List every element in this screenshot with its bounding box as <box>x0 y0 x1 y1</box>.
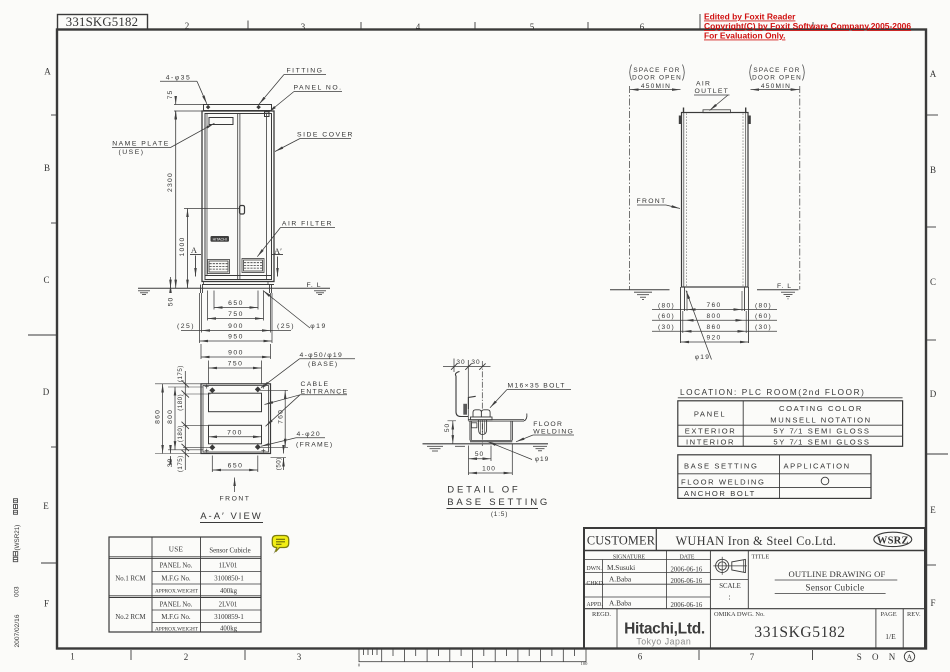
svg-text:WUHAN Iron & Steel Co.Ltd.: WUHAN Iron & Steel Co.Ltd. <box>676 534 837 548</box>
svg-text:φ19: φ19 <box>535 456 549 463</box>
svg-text:5Y 7⁄1 SEMI GLOSS: 5Y 7⁄1 SEMI GLOSS <box>773 438 870 447</box>
svg-text:APPD.: APPD. <box>587 602 604 608</box>
svg-text:A.Baba: A.Baba <box>609 575 632 584</box>
svg-text:PANEL No.: PANEL No. <box>160 563 193 570</box>
svg-text:OUTLINE DRAWING OF: OUTLINE DRAWING OF <box>789 569 886 579</box>
svg-text:FITTING: FITTING <box>287 68 324 75</box>
svg-text:Sensor Cubicle: Sensor Cubicle <box>806 583 865 593</box>
svg-text:1/E: 1/E <box>885 632 896 641</box>
svg-text:F. L: F. L <box>777 283 792 290</box>
svg-text:(FRAME): (FRAME) <box>296 441 333 448</box>
svg-text:For Evaluation Only.: For Evaluation Only. <box>704 31 785 41</box>
svg-text:E: E <box>43 501 49 511</box>
svg-text:750: 750 <box>228 361 244 368</box>
svg-text:F: F <box>44 599 49 609</box>
svg-text:Copyright(C) by Foxit Software: Copyright(C) by Foxit Software Company,2… <box>704 21 911 31</box>
svg-text:331SKG5182: 331SKG5182 <box>754 624 845 641</box>
svg-text:REV.: REV. <box>907 611 921 618</box>
svg-text:(25): (25) <box>277 323 295 330</box>
svg-text:PANEL NO.: PANEL NO. <box>293 85 342 92</box>
svg-text:Hitachi,Ltd.: Hitachi,Ltd. <box>624 621 705 638</box>
svg-text:1LV01: 1LV01 <box>219 563 238 570</box>
svg-text:B: B <box>930 165 936 175</box>
svg-text:3: 3 <box>297 652 302 662</box>
svg-text:3100859-1: 3100859-1 <box>214 614 243 621</box>
svg-text:(175): (175) <box>177 455 184 472</box>
svg-text:800: 800 <box>167 409 174 424</box>
svg-text:75: 75 <box>167 90 174 100</box>
svg-text:Sensor Cubicle: Sensor Cubicle <box>209 548 250 555</box>
svg-text:(WSR21): (WSR21) <box>14 525 21 551</box>
svg-text:650: 650 <box>228 463 244 470</box>
svg-text:4-φ20: 4-φ20 <box>297 431 322 438</box>
svg-text:2006-06-16: 2006-06-16 <box>671 578 703 585</box>
svg-text:FRONT: FRONT <box>637 198 667 205</box>
svg-text:SPACE FOR: SPACE FOR <box>633 67 680 74</box>
svg-text:900: 900 <box>228 323 244 330</box>
svg-text:CHKD.: CHKD. <box>587 581 605 587</box>
svg-text:2LV01: 2LV01 <box>219 601 238 608</box>
svg-text:(30): (30) <box>658 324 675 331</box>
svg-text:LOCATION: PLC ROOM(2nd FLOOR): LOCATION: PLC ROOM(2nd FLOOR) <box>680 388 865 397</box>
svg-text:50: 50 <box>168 297 175 307</box>
svg-text:2007/02/16: 2007/02/16 <box>14 614 21 647</box>
svg-text:DATE: DATE <box>680 554 695 560</box>
svg-text:DOOR OPEN: DOOR OPEN <box>632 75 682 82</box>
svg-text:450MIN: 450MIN <box>641 83 671 90</box>
svg-text:EXTERIOR: EXTERIOR <box>685 427 737 436</box>
svg-text:A.Baba: A.Baba <box>609 599 632 608</box>
svg-text:INTERIOR: INTERIOR <box>686 438 735 447</box>
svg-text:450MIN: 450MIN <box>761 83 791 90</box>
svg-text:M.F.G No.: M.F.G No. <box>161 614 191 621</box>
svg-text:(80): (80) <box>658 302 675 309</box>
svg-text:ANCHOR BOLT: ANCHOR BOLT <box>684 489 756 498</box>
svg-text:PANEL: PANEL <box>694 410 726 419</box>
svg-text:SCALE: SCALE <box>719 583 741 590</box>
svg-text:3: 3 <box>301 22 306 32</box>
svg-text:30: 30 <box>167 458 174 468</box>
svg-text:100: 100 <box>482 465 496 472</box>
svg-text:A-A′ VIEW: A-A′ VIEW <box>200 511 263 522</box>
svg-text:(80): (80) <box>755 302 772 309</box>
svg-text:AIR FILTER: AIR FILTER <box>282 221 333 228</box>
svg-text:A: A <box>930 69 937 79</box>
svg-text:400kg: 400kg <box>220 625 238 632</box>
svg-text:B: B <box>44 163 50 173</box>
svg-text:2: 2 <box>185 21 190 31</box>
svg-text:φ19: φ19 <box>310 323 326 330</box>
svg-text:(180): (180) <box>177 394 184 411</box>
svg-text:FLOOR WELDING: FLOOR WELDING <box>681 477 766 486</box>
svg-text:DOOR OPEN: DOOR OPEN <box>752 75 802 82</box>
svg-text:4-φ35: 4-φ35 <box>166 75 192 82</box>
svg-text:HITACHI: HITACHI <box>213 238 227 242</box>
svg-text:A: A <box>191 245 198 255</box>
svg-text:SIDE COVER: SIDE COVER <box>297 132 354 139</box>
svg-text:(25): (25) <box>177 323 195 330</box>
svg-text:OUTLET: OUTLET <box>695 88 730 95</box>
svg-text:Tokyo Japan: Tokyo Japan <box>636 637 691 647</box>
svg-text:50: 50 <box>444 423 451 432</box>
svg-text:SIGNATURE: SIGNATURE <box>613 554 646 560</box>
svg-text:(BASE): (BASE) <box>308 361 338 368</box>
svg-text:900: 900 <box>228 350 244 357</box>
svg-text:S O N: S O N <box>857 652 900 662</box>
svg-text:7: 7 <box>750 652 755 662</box>
svg-text:A: A <box>44 67 51 77</box>
svg-text:(60): (60) <box>658 313 675 320</box>
svg-text:1: 1 <box>70 652 75 662</box>
svg-text:MUNSELL NOTATION: MUNSELL NOTATION <box>770 416 871 425</box>
svg-text:800: 800 <box>707 313 722 320</box>
svg-text:860: 860 <box>155 409 162 424</box>
svg-text:2006-06-16: 2006-06-16 <box>671 602 703 609</box>
svg-text:No.1 RCM: No.1 RCM <box>115 576 145 583</box>
svg-text:WELDING: WELDING <box>533 429 574 436</box>
svg-text:E: E <box>930 505 936 515</box>
svg-text:C: C <box>43 275 49 285</box>
svg-text:NAME PLATE: NAME PLATE <box>112 141 170 148</box>
svg-text:2: 2 <box>184 652 189 662</box>
svg-text:003: 003 <box>14 586 21 597</box>
svg-text:DETAIL OF: DETAIL OF <box>447 485 520 496</box>
svg-text:4-φ50/φ19: 4-φ50/φ19 <box>300 352 344 359</box>
svg-text:860: 860 <box>707 324 722 331</box>
svg-text:400kg: 400kg <box>220 588 238 595</box>
svg-text:2006-06-16: 2006-06-16 <box>671 567 703 574</box>
svg-text:PANEL No.: PANEL No. <box>160 601 193 608</box>
svg-text:700: 700 <box>227 430 243 437</box>
svg-text:6: 6 <box>638 652 643 662</box>
svg-text:760: 760 <box>707 302 722 309</box>
svg-text:6: 6 <box>640 22 645 32</box>
svg-text:A′: A′ <box>274 246 282 256</box>
svg-text:REGD.: REGD. <box>592 611 611 618</box>
svg-text:100: 100 <box>581 661 589 666</box>
svg-text:BASE SETTING: BASE SETTING <box>684 461 758 470</box>
svg-text:OMIKA DWG. No.: OMIKA DWG. No. <box>714 611 765 618</box>
svg-text:AIR: AIR <box>696 81 711 88</box>
svg-text:TITLE: TITLE <box>752 554 770 561</box>
svg-text:5Y 7⁄1 SEMI GLOSS: 5Y 7⁄1 SEMI GLOSS <box>773 427 870 436</box>
svg-text:APPROX.WEIGHT: APPROX.WEIGHT <box>155 588 199 594</box>
svg-text:No.2 RCM: No.2 RCM <box>115 614 145 621</box>
svg-text:COATING COLOR: COATING COLOR <box>779 404 863 413</box>
svg-text:PAGE: PAGE <box>881 611 897 618</box>
svg-text:2300: 2300 <box>167 172 174 192</box>
svg-text:Edited by Foxit Reader: Edited by Foxit Reader <box>704 12 796 22</box>
svg-text:5: 5 <box>530 22 535 32</box>
svg-text:0: 0 <box>358 663 361 668</box>
svg-text:M.Susuki: M.Susuki <box>607 563 635 572</box>
svg-text:331SKG5182: 331SKG5182 <box>66 15 138 29</box>
svg-text:F: F <box>930 598 935 608</box>
svg-text:(1:5): (1:5) <box>491 511 508 518</box>
svg-text:SPACE FOR: SPACE FOR <box>753 67 800 74</box>
svg-text:FLOOR: FLOOR <box>533 421 563 428</box>
svg-text:(175): (175) <box>177 365 184 382</box>
svg-text:APPLICATION: APPLICATION <box>784 461 851 470</box>
svg-text:CUSTOMER: CUSTOMER <box>587 534 656 548</box>
svg-text:30: 30 <box>456 359 465 366</box>
svg-text:920: 920 <box>707 335 722 342</box>
svg-text:(50): (50) <box>275 457 282 470</box>
svg-text:F. L: F. L <box>307 282 322 289</box>
svg-text:APPROX.WEIGHT: APPROX.WEIGHT <box>155 626 199 632</box>
svg-text:3100850-1: 3100850-1 <box>214 576 243 583</box>
svg-text:D: D <box>930 389 937 399</box>
svg-text:USE: USE <box>169 546 184 554</box>
svg-text:1000: 1000 <box>179 237 186 257</box>
svg-text:DWN.: DWN. <box>587 566 603 572</box>
svg-text:M16×35 BOLT: M16×35 BOLT <box>508 382 566 389</box>
svg-text:BASE SETTING: BASE SETTING <box>447 497 550 508</box>
svg-text:750: 750 <box>228 311 244 318</box>
svg-text::: : <box>728 593 730 602</box>
svg-text:50: 50 <box>475 451 484 458</box>
svg-text:φ19: φ19 <box>695 354 711 361</box>
svg-text:FRONT: FRONT <box>220 496 251 503</box>
svg-text:(30): (30) <box>755 324 772 331</box>
svg-text:D: D <box>43 387 50 397</box>
svg-text:M.F.G No.: M.F.G No. <box>161 576 191 583</box>
svg-text:WSRZ: WSRZ <box>877 535 909 546</box>
svg-text:C: C <box>930 277 936 287</box>
svg-text:30: 30 <box>471 359 480 366</box>
svg-text:A: A <box>907 653 913 662</box>
svg-text:650: 650 <box>228 300 244 307</box>
svg-text:950: 950 <box>228 334 244 341</box>
svg-text:(USE): (USE) <box>118 149 144 156</box>
svg-text:(180): (180) <box>177 425 184 442</box>
svg-text:CABLE: CABLE <box>301 381 330 388</box>
svg-text:760: 760 <box>277 409 284 424</box>
svg-text:4: 4 <box>416 22 421 32</box>
svg-text:(60): (60) <box>755 313 772 320</box>
